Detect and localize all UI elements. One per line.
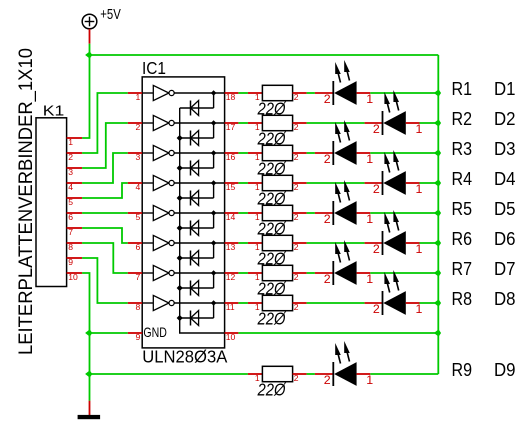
junction GND at IC pin 9 branch [86,330,92,336]
svg-text:2: 2 [294,92,299,102]
connector K1 pin 9 [67,257,83,267]
junction GND at bottom bus branch [86,371,92,377]
svg-text:2: 2 [294,242,299,252]
svg-text:IC1: IC1 [142,58,166,78]
wire D5 to +5V bus [370,212,438,214]
IC1 output pin 15 [225,182,239,192]
svg-text:4: 4 [136,182,141,192]
LED D3 [315,120,373,166]
wire IC1 pin 15 to R4 [238,182,248,184]
svg-text:R1: R1 [452,78,473,99]
junction diode rail 8 [177,316,182,321]
svg-text:8: 8 [136,302,141,312]
wire +5V stub to junction [89,44,91,55]
junction diode rail 6 [177,256,182,261]
wire R4 to D4 [307,182,365,184]
connector K1 pin 8 [67,242,83,252]
svg-text:9: 9 [68,257,73,267]
wire IC1 pin 16 to R3 [238,152,248,154]
svg-text:R9: R9 [452,359,473,380]
clamp diode 8 of IC1 [180,303,214,326]
IC1 output pin 16 [225,152,239,162]
resistor R5 [248,205,307,222]
svg-text:R7: R7 [452,258,473,279]
junction IC1 output 7 [211,271,215,275]
svg-text:2: 2 [373,182,380,196]
resistor R8 [248,295,307,312]
connector K1 pin 6 [67,212,83,222]
wire K1 pin 8 to IC1 input 7 [82,243,128,273]
LED D1 [315,60,373,106]
wire K1 pin 3 to IC1 input 2 [82,123,128,168]
svg-text:22Ø: 22Ø [257,380,287,400]
junction diode rail 7 [177,286,182,291]
svg-text:R8: R8 [452,288,473,309]
wire D8 to +5V bus [420,302,439,304]
svg-text:D2: D2 [494,108,516,129]
junction IC1 output 6 [211,241,215,245]
inverter stage 8 of IC1 [142,295,224,310]
wire IC1 pin 12 to R7 [238,272,248,274]
IC1 output pin 18 [225,92,239,102]
connector K1 pin 5 [67,197,83,207]
svg-text:1: 1 [366,92,373,106]
IC1 pin 10 COM stub [225,332,239,342]
svg-text:2: 2 [294,212,299,222]
svg-text:2: 2 [68,152,73,162]
wire K1 pin 9 to IC1 input 8 [82,258,128,303]
svg-text:6: 6 [68,212,73,222]
LED D4 [365,150,423,196]
svg-text:1: 1 [366,373,373,387]
clamp diode 7 of IC1 [180,273,214,296]
wire K1 pin 4 to IC1 input 3 [82,153,128,183]
wire IC1 pin 14 to R5 [238,212,248,214]
svg-text:2: 2 [294,182,299,192]
svg-text:13: 13 [226,242,236,252]
junction IC1 output 1 [211,91,215,95]
svg-text:22Ø: 22Ø [257,309,287,329]
svg-text:1: 1 [136,92,141,102]
junction D8 at bus [435,300,441,306]
resistor R3 [248,145,307,162]
svg-text:3: 3 [68,167,73,177]
wire IC1 pin 18 to R1 [238,92,248,94]
junction diode rail 2 [177,136,182,141]
IC1 output pin 11 [225,302,239,312]
diode common rail to pin 10 [180,108,225,333]
svg-text:2: 2 [373,122,380,136]
svg-text:2: 2 [294,272,299,282]
inverter stage 7 of IC1 [142,265,224,280]
wire K1 pin 2 to IC1 input 1 [82,93,128,153]
clamp diode 3 of IC1 [180,153,214,176]
svg-text:D3: D3 [494,138,516,159]
svg-text:2: 2 [324,272,331,286]
svg-text:2: 2 [324,92,331,106]
svg-text:5: 5 [68,197,73,207]
wire K1 pin 6 to IC1 input 5 [82,212,128,214]
clamp diode 4 of IC1 [180,183,214,206]
resistor R6 [248,235,307,252]
svg-text:D4: D4 [494,168,516,189]
svg-text:9: 9 [136,332,141,342]
junction D3 at bus [435,150,441,156]
IC1 input pin 6 [128,242,142,252]
junction D1 at bus [435,90,441,96]
svg-text:K1: K1 [43,104,65,120]
ground symbol [78,401,101,419]
svg-text:2: 2 [324,373,331,387]
resistor R4 [248,175,307,192]
svg-text:LEITERPLATTENVERBINDER_1X10: LEITERPLATTENVERBINDER_1X10 [16,48,37,355]
wire R2 to D2 [307,122,365,124]
IC1 input pin 1 [128,92,142,102]
wire D6 to +5V bus [420,242,439,244]
inverter stage 6 of IC1 [142,235,224,250]
resistor R7 [248,265,307,282]
svg-text:3: 3 [136,152,141,162]
svg-text:D6: D6 [494,228,516,249]
junction IC1 output 3 [211,151,215,155]
svg-text:18: 18 [226,92,236,102]
svg-text:R5: R5 [452,198,473,219]
wire +5V top bus [90,54,439,56]
IC1 output pin 14 [225,212,239,222]
junction +5V node [86,52,92,58]
wire D3 to +5V bus [370,152,438,154]
wire D1 to +5V bus [370,92,438,94]
junction D2 at bus [435,120,441,126]
IC1 input pin 8 [128,302,142,312]
IC1 output pin 17 [225,122,239,132]
svg-text:R2: R2 [452,108,473,129]
svg-text:2: 2 [294,373,299,383]
svg-text:14: 14 [226,212,236,222]
wire GND to IC1 pin 9 [90,332,128,334]
svg-text:1: 1 [68,137,73,147]
connector K1 pin 3 [67,167,83,177]
svg-text:D8: D8 [494,288,516,309]
svg-text:4: 4 [68,182,73,192]
clamp diode 5 of IC1 [180,213,214,236]
svg-text:2: 2 [324,152,331,166]
svg-text:D5: D5 [494,198,516,219]
wire R6 to D6 [307,242,365,244]
svg-text:10: 10 [68,272,78,282]
junction IC1 output 4 [211,181,215,185]
IC1 pin 9 GND stub [128,332,142,342]
svg-text:1: 1 [366,272,373,286]
wire R1 to D1 [307,92,315,94]
connector K1 pin 2 [67,152,83,162]
clamp diode 2 of IC1 [180,123,214,146]
svg-text:2: 2 [294,122,299,132]
inverter stage 1 of IC1 [142,85,224,100]
svg-text:2: 2 [373,302,380,316]
junction diode rail 4 [177,196,182,201]
svg-text:16: 16 [226,152,236,162]
junction diode rail 3 [177,166,182,171]
wire K1 pin 5 to IC1 input 4 [82,183,128,198]
wire D4 to +5V bus [420,182,439,184]
svg-text:ULN28Ø3A: ULN28Ø3A [142,347,227,367]
svg-text:D7: D7 [494,258,516,279]
svg-text:1: 1 [416,242,423,256]
junction IC1 output 8 [211,301,215,305]
wire R9 to D9 [307,373,315,375]
IC1 output pin 13 [225,242,239,252]
wire R5 to D5 [307,212,315,214]
junction D4 at bus [435,180,441,186]
wire R7 to D7 [307,272,315,274]
junction diode rail 5 [177,226,182,231]
wire IC1 pin 11 to R8 [238,302,248,304]
wire D9 anode to +5V bus corner [370,373,438,375]
IC1 input pin 2 [128,122,142,132]
svg-text:10: 10 [226,332,236,342]
junction D5 at bus [435,210,441,216]
connector K1 pin 1 [67,137,83,147]
svg-text:1: 1 [416,302,423,316]
wire IC1 pin 13 to R6 [238,242,248,244]
resistor R2 [248,115,307,132]
svg-text:2: 2 [136,122,141,132]
svg-text:2: 2 [324,212,331,226]
LED D5 [315,180,373,226]
svg-text:17: 17 [226,122,236,132]
clamp diode 1 of IC1 [180,93,214,116]
IC1 input pin 3 [128,152,142,162]
wire IC1 COM to +5V bus [238,332,438,334]
svg-text:R6: R6 [452,228,473,249]
svg-text:12: 12 [226,272,236,282]
svg-text:R3: R3 [452,138,473,159]
svg-text:1: 1 [416,122,423,136]
connector K1 pin 7 [67,227,83,237]
connector K1 pin 10 [67,272,83,282]
clamp diode 6 of IC1 [180,243,214,266]
LED D6 [365,210,423,256]
svg-text:2: 2 [294,152,299,162]
wire K1 pin 10 to GND rail [82,273,89,401]
LED D8 [365,270,423,316]
IC1 input pin 7 [128,272,142,282]
LED D9 [315,341,373,387]
svg-text:5: 5 [136,212,141,222]
junction IC1 output 5 [211,211,215,215]
svg-text:6: 6 [136,242,141,252]
svg-text:2: 2 [373,242,380,256]
svg-text:15: 15 [226,182,236,192]
resistor R1 [248,85,307,102]
IC1 input pin 5 [128,212,142,222]
IC1 output pin 12 [225,272,239,282]
LED D2 [365,90,423,136]
wire D2 to +5V bus [420,122,439,124]
svg-text:R4: R4 [452,168,473,189]
wire +5V right bus [437,55,439,374]
wire +5V to K1 pin 1 [82,55,89,138]
junction D7 at bus [435,270,441,276]
wire GND bottom bus to R9 [90,373,248,375]
svg-text:1: 1 [366,152,373,166]
junction IC1 output 2 [211,121,215,125]
inverter stage 5 of IC1 [142,205,224,220]
svg-text:11: 11 [226,302,235,312]
svg-text:+5V: +5V [100,7,121,23]
power +5V symbol [82,14,97,44]
op-amp array IC1 body [142,77,224,348]
svg-text:7: 7 [136,272,141,282]
junction D6 at bus [435,240,441,246]
LED D7 [315,240,373,286]
wire R8 to D8 [307,302,365,304]
connector K1 body [36,118,67,287]
inverter stage 3 of IC1 [142,145,224,160]
svg-text:D1: D1 [494,78,516,99]
wire K1 pin 7 to IC1 input 6 [82,228,128,243]
wire IC1 pin 17 to R2 [238,122,248,124]
inverter stage 2 of IC1 [142,115,224,130]
inverter stage 4 of IC1 [142,175,224,190]
svg-text:2: 2 [294,302,299,312]
connector K1 pin 4 [67,182,83,192]
svg-text:GND: GND [143,324,167,340]
wire R3 to D3 [307,152,315,154]
svg-text:1: 1 [416,182,423,196]
IC1 input pin 4 [128,182,142,192]
resistor R9 [248,366,307,383]
svg-text:8: 8 [68,242,73,252]
svg-text:7: 7 [68,227,73,237]
svg-text:1: 1 [366,212,373,226]
wire D7 to +5V bus [370,272,438,274]
junction COM at bus [435,330,441,336]
svg-text:D9: D9 [494,359,516,380]
